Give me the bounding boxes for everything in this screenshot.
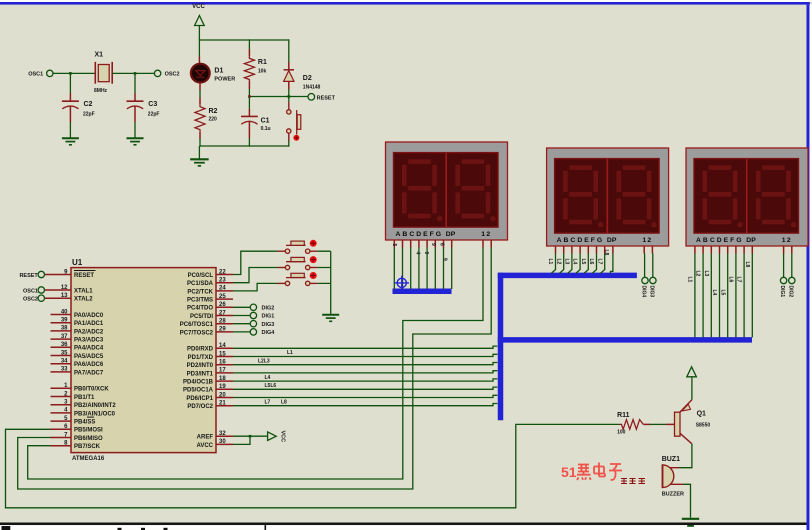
svg-text:RESET: RESET: [317, 95, 336, 101]
wire PD3 to bus: [233, 371, 497, 373]
pin 35 PA5/ADC5 stub: [51, 355, 72, 357]
diode D2: [284, 69, 294, 71]
pin 26 PC4/TDO stub: [216, 306, 233, 308]
svg-text:L4: L4: [572, 259, 578, 265]
pin 36 PA4/ADC4 stub: [51, 346, 72, 348]
capacitor C1: [241, 115, 258, 117]
terminal DIG3: [250, 321, 256, 327]
svg-text:25: 25: [219, 294, 226, 300]
wire ground stem: [198, 146, 200, 159]
svg-text:AVCC: AVCC: [196, 443, 213, 449]
svg-text:PD4/OC1B: PD4/OC1B: [183, 380, 214, 386]
svg-text:23: 23: [219, 278, 226, 284]
svg-text:22pF: 22pF: [83, 111, 95, 117]
terminal DIG2: [250, 304, 256, 310]
svg-text:32: 32: [219, 431, 226, 437]
power VCC arrow: [195, 16, 205, 26]
svg-text:0.1u: 0.1u: [261, 126, 271, 132]
svg-text:L2: L2: [695, 271, 701, 277]
wire VCC stem: [198, 26, 200, 41]
svg-text:DIG3: DIG3: [649, 286, 655, 298]
pin 40 PA0/ADC0 stub: [51, 314, 72, 316]
svg-text:L6: L6: [728, 277, 734, 283]
schematic bottom border (black): [0, 523, 807, 526]
svg-text:L8: L8: [744, 262, 750, 268]
wire bottom rail: [199, 145, 288, 147]
svg-text:L1: L1: [547, 259, 553, 265]
wire R1 branch top: [248, 39, 250, 49]
svg-text:PB3/AIN1/OC0: PB3/AIN1/OC0: [74, 411, 116, 417]
pin 16 PD2/INT0 stub: [216, 364, 233, 366]
wire DISP2 pin G: [604, 246, 606, 254]
button terminals: [285, 281, 289, 285]
LED D1: [191, 64, 210, 83]
svg-text:22: 22: [219, 269, 226, 275]
wire DISP3 pin B: [702, 246, 704, 254]
terminal DIG3 (display2): [650, 277, 656, 283]
wire top rail: [199, 39, 288, 41]
svg-text:R2: R2: [209, 108, 218, 115]
pin 4 PB3/AIN1/OC0 stub: [51, 412, 72, 414]
pin 2 PB1/T1 stub: [51, 396, 72, 398]
svg-text:29: 29: [219, 327, 226, 333]
svg-text:L6: L6: [588, 259, 594, 265]
svg-text:12: 12: [61, 285, 68, 291]
svg-text:L2: L2: [555, 259, 561, 265]
power VCC arrow (Q1): [687, 367, 697, 377]
svg-text:RESET: RESET: [74, 273, 94, 279]
svg-text:PB7/SCK: PB7/SCK: [74, 444, 101, 450]
svg-text:PC6/TOSC1: PC6/TOSC1: [180, 322, 214, 328]
svg-text:36: 36: [61, 342, 68, 348]
wire DISP2 pin C: [571, 246, 573, 254]
7-segment display DISP3: [686, 148, 808, 246]
wire LED branch top: [198, 39, 200, 56]
pin 24 PC2/TCK stub: [216, 290, 233, 292]
svg-text:VCC: VCC: [192, 4, 205, 10]
svg-text:4: 4: [415, 252, 421, 255]
svg-text:9: 9: [441, 258, 447, 261]
button actuator (red): [310, 256, 317, 263]
svg-text:C3: C3: [148, 101, 157, 108]
wire buzzer-ground: [671, 483, 684, 485]
pin 38 PA2/ADC2 stub: [51, 330, 72, 332]
svg-text:39: 39: [61, 318, 68, 324]
terminal DIG1: [250, 312, 256, 318]
svg-text:PD2/INT0: PD2/INT0: [187, 363, 214, 369]
terminal DIG1 (display3): [780, 277, 786, 283]
crystal X1: [94, 62, 96, 84]
wire PC1-button2: [233, 268, 278, 283]
svg-text:L3: L3: [703, 271, 709, 277]
node marker (bus origin): [395, 276, 409, 290]
svg-text:L7: L7: [265, 399, 271, 405]
button actuator (red): [310, 240, 317, 247]
wire Q1-buzzer: [680, 444, 692, 468]
terminal OSC2 (chip): [38, 295, 44, 301]
svg-text:L5: L5: [719, 290, 725, 296]
bus bar (display1): [393, 289, 452, 295]
svg-text:DIG1: DIG1: [779, 286, 785, 298]
svg-text:16: 16: [219, 360, 226, 366]
pin 27 PC5/TDI stub: [216, 315, 233, 317]
wire C2 branch: [69, 73, 71, 93]
wire button lever: [286, 277, 306, 279]
svg-text:1N4148: 1N4148: [303, 85, 321, 91]
wire R2-bottom rail: [199, 132, 201, 139]
svg-text:24: 24: [219, 286, 226, 292]
resistor R2: [195, 105, 205, 132]
wire DISP3 pin G: [743, 246, 745, 254]
svg-text:OSC1: OSC1: [28, 72, 43, 78]
wire DISP3 pin DP: [751, 246, 753, 254]
svg-text:20: 20: [219, 392, 226, 398]
pin 37 PA3/ADC3 stub: [51, 338, 72, 340]
svg-text:35: 35: [61, 350, 68, 356]
svg-text:17: 17: [219, 368, 226, 374]
terminal DIG4: [250, 329, 256, 335]
wire DISP2 pin B: [563, 246, 565, 254]
pin 13 XTAL2 stub: [45, 297, 72, 299]
wire PC-DIG4: [233, 331, 250, 333]
svg-text:100: 100: [617, 429, 626, 435]
svg-text:PB5/MOSI: PB5/MOSI: [74, 428, 103, 434]
svg-text:S8550: S8550: [696, 422, 711, 428]
bus horizontal (display3): [498, 337, 752, 343]
bus horizontal (display2): [498, 273, 637, 279]
junction D2/node2: [288, 95, 291, 98]
svg-text:DIG4: DIG4: [262, 330, 276, 336]
pin 29 PC7/TOSC2 stub: [216, 331, 233, 333]
svg-text:C2: C2: [84, 101, 93, 108]
svg-text:PA2/ADC2: PA2/ADC2: [74, 329, 104, 335]
svg-text:Q1: Q1: [697, 411, 706, 418]
svg-text:OSC2: OSC2: [23, 297, 38, 303]
svg-text:13: 13: [61, 293, 68, 299]
pin 22 PC0/SCL stub: [216, 274, 233, 276]
sheet border top (blue): [0, 2, 810, 5]
svg-text:PC5/TDI: PC5/TDI: [190, 314, 213, 320]
wire buttons common: [317, 251, 331, 315]
wire D2 branch top: [288, 39, 290, 62]
svg-text:PA1/ADC1: PA1/ADC1: [74, 321, 104, 327]
svg-text:PD7/OC2: PD7/OC2: [187, 404, 213, 410]
pin 5 PB4/SS stub: [51, 420, 72, 422]
svg-text:PB2/AIN0/INT2: PB2/AIN0/INT2: [74, 403, 116, 409]
svg-text:14: 14: [219, 343, 226, 349]
wire PD0 to bus: [233, 346, 497, 348]
terminal OSC1 (crystal): [47, 70, 53, 76]
pin 14 PD0/RXD stub: [216, 347, 233, 349]
wire DISP1 pin A: [393, 240, 395, 248]
svg-text:34: 34: [61, 359, 68, 365]
wire DISP2 pin2-DIG3: [651, 246, 653, 254]
power VCC arrow (AREF): [268, 432, 277, 441]
svg-text:L2L3: L2L3: [258, 358, 270, 364]
svg-text:19: 19: [219, 384, 226, 390]
wire X1-OSC2: [112, 72, 154, 74]
svg-text:D1: D1: [214, 68, 223, 75]
pin 20 PD6/ICP1 stub: [216, 397, 233, 399]
pin 6 PB5/MOSI stub: [51, 428, 72, 430]
svg-text:POWER: POWER: [214, 77, 235, 83]
wire PB6 to display1 pin2: [18, 248, 492, 490]
wire DISP1 pin2 stub: [490, 240, 492, 248]
wire PD1 to bus: [233, 354, 497, 356]
terminal RESET (chip): [38, 271, 44, 277]
wire DISP2 pin A: [555, 246, 557, 254]
svg-text:PB4/SS: PB4/SS: [74, 420, 95, 426]
wire DISP3 pin1-DIG1: [783, 246, 785, 254]
svg-text:PD0/RXD: PD0/RXD: [187, 347, 214, 353]
pin 33 PA7/ADC7 stub: [51, 371, 72, 373]
svg-text:15: 15: [219, 351, 226, 357]
svg-text:XTAL1: XTAL1: [74, 288, 93, 294]
wire reset button top: [288, 97, 290, 102]
svg-text:220: 220: [209, 117, 218, 123]
ground (C2): [62, 137, 79, 139]
wire DISP1 pin D: [418, 240, 420, 248]
svg-text:18: 18: [219, 376, 226, 382]
svg-text:PB6/MISO: PB6/MISO: [74, 436, 103, 442]
svg-text:DIG2: DIG2: [787, 286, 793, 298]
wire DISP2 pin1-DIG4: [643, 246, 645, 254]
svg-text:DIG2: DIG2: [262, 306, 275, 312]
wire DISP1 pin DP: [451, 240, 453, 248]
terminal OSC2 (crystal): [154, 70, 160, 76]
wire DISP3 pin C: [710, 246, 712, 254]
pin 18 PD4/OC1B stub: [216, 380, 233, 382]
wire PB5 to R11 (via bottom): [6, 424, 620, 507]
svg-text:37: 37: [61, 334, 68, 340]
ground (buttons): [322, 314, 339, 316]
svg-text:PC7/TOSC2: PC7/TOSC2: [180, 330, 214, 336]
button actuator (red): [310, 272, 317, 279]
svg-text:PD5/OC1A: PD5/OC1A: [183, 388, 214, 394]
svg-text:PC0/SCL: PC0/SCL: [188, 273, 214, 279]
wire PD6 to bus: [233, 395, 497, 397]
svg-text:AREF: AREF: [197, 435, 214, 441]
svg-text:ATMEGA16: ATMEGA16: [72, 456, 105, 462]
svg-text:PA5/ADC5: PA5/ADC5: [74, 354, 104, 360]
svg-text:U1: U1: [72, 258, 83, 267]
svg-text:38: 38: [61, 326, 68, 332]
wire R11-Q1 base: [643, 423, 650, 425]
svg-text:PC2/TCK: PC2/TCK: [187, 289, 213, 295]
wire PC2-button3: [233, 283, 278, 291]
svg-text:PA4/ADC4: PA4/ADC4: [74, 346, 104, 352]
capacitor C2: [62, 100, 79, 102]
wire PD5 to bus: [233, 387, 497, 389]
bus vertical (main): [498, 273, 504, 421]
svg-text:L4: L4: [711, 290, 717, 296]
wire C3 branch: [134, 73, 136, 93]
svg-text:PD3/INT1: PD3/INT1: [187, 371, 214, 377]
svg-text:XTAL2: XTAL2: [74, 297, 93, 303]
7-segment display DISP1: [386, 142, 508, 240]
watermark small red text: [621, 478, 645, 484]
pin 39 PA1/ADC1 stub: [51, 322, 72, 324]
pin 28 PC6/TOSC1 stub: [216, 323, 233, 325]
svg-text:L4: L4: [265, 375, 271, 381]
watermark 51hei text: [561, 463, 622, 481]
svg-text:L1: L1: [687, 277, 693, 283]
wire button lever: [286, 261, 306, 263]
wire DISP2 pin D: [579, 246, 581, 254]
wire DISP1 pin C: [410, 240, 412, 248]
pin 34 PA6/ADC6 stub: [51, 363, 72, 365]
svg-text:L1: L1: [287, 350, 293, 356]
svg-text:L7: L7: [596, 259, 602, 265]
svg-text:5: 5: [391, 244, 397, 247]
svg-text:30: 30: [219, 439, 226, 445]
svg-text:X1: X1: [95, 52, 104, 59]
wire DISP2 pin F: [596, 246, 598, 254]
svg-text:PB1/T1: PB1/T1: [74, 395, 95, 401]
resistor R11: [620, 420, 644, 430]
svg-text:BUZ1: BUZ1: [662, 456, 680, 463]
status strip marks: [2, 526, 11, 530]
wire DISP2 pin E: [587, 246, 589, 254]
sheet border right (blue): [807, 5, 810, 530]
wire DISP3 pin E: [727, 246, 729, 254]
wire DISP1 pin B: [402, 240, 404, 248]
ground (buzzer) top bar: [682, 518, 699, 520]
junction AREF: [249, 435, 252, 438]
svg-text:DIG3: DIG3: [262, 322, 275, 328]
Q1 collector: [680, 433, 692, 444]
svg-text:PC1/SDA: PC1/SDA: [187, 281, 214, 287]
svg-text:BUZZER: BUZZER: [662, 491, 684, 497]
wire PC-DIG2: [233, 306, 250, 308]
wire DISP1 pin1 stub: [482, 240, 484, 248]
svg-text:PA0/ADC0: PA0/ADC0: [74, 313, 104, 319]
pin 3 PB2/AIN0/INT2 stub: [51, 404, 72, 406]
pin 25 PC3/TMS stub: [216, 298, 233, 300]
wire PC0-button1: [233, 251, 278, 274]
svg-text:33: 33: [61, 367, 68, 373]
svg-text:L3: L3: [564, 259, 570, 265]
pin 32 AREF stub: [216, 435, 233, 437]
wire button lever: [286, 244, 306, 246]
wire DISP2 pin DP: [612, 246, 614, 254]
terminal RESET (top): [308, 94, 315, 101]
terminal DIG4 (display2): [642, 277, 648, 283]
wire PD7 to bus: [233, 404, 497, 406]
wire PB7 to display1 pin1: [28, 248, 483, 480]
svg-text:PD1/TXD: PD1/TXD: [188, 355, 214, 361]
svg-text:0: 0: [423, 252, 429, 255]
svg-text:40: 40: [61, 309, 68, 315]
svg-text:D2: D2: [303, 75, 312, 82]
svg-text:R11: R11: [617, 412, 630, 419]
svg-text:R1: R1: [258, 59, 267, 66]
wire PC-DIG3: [233, 323, 250, 325]
wire LED-R2: [199, 82, 201, 90]
Q1 emitter: [680, 400, 692, 412]
overline SS pin label: [87, 416, 94, 418]
wire DISP1 pin G: [443, 240, 445, 248]
resistor R1: [244, 56, 254, 81]
junction node2: [248, 95, 251, 98]
svg-text:L5L6: L5L6: [265, 383, 277, 389]
pin 19 PD5/OC1A stub: [216, 388, 233, 390]
transistor Q1 (S8550): [675, 412, 681, 436]
svg-text:22pF: 22pF: [148, 111, 160, 117]
pin 1 PB0/T0/XCK stub: [51, 387, 72, 389]
svg-text:21: 21: [219, 401, 226, 407]
svg-text:OSC2: OSC2: [165, 72, 180, 78]
svg-text:6: 6: [438, 243, 444, 246]
op-amp U1 body (ATMEGA16): [71, 268, 216, 453]
svg-text:L8: L8: [603, 250, 609, 256]
svg-text:51: 51: [561, 464, 577, 480]
svg-text:RESET: RESET: [19, 273, 38, 279]
pin 12 XTAL1 stub: [45, 289, 72, 291]
wire DISP1 pin F: [434, 240, 436, 248]
capacitor C3: [127, 100, 144, 102]
wire DISP3 pin2-DIG2: [791, 246, 793, 254]
wire PD2 to bus: [233, 363, 497, 365]
svg-text:8MHz: 8MHz: [94, 88, 108, 94]
svg-text:PC3/TMS: PC3/TMS: [187, 298, 213, 304]
wire DISP3 pin D: [719, 246, 721, 254]
wire R1-node2: [248, 82, 250, 90]
overline RESET pin label: [74, 270, 96, 272]
wire reset button bottom: [288, 133, 290, 141]
svg-text:DIG4: DIG4: [641, 286, 647, 298]
svg-text:VCC: VCC: [280, 431, 286, 443]
svg-text:PC4/TDO: PC4/TDO: [187, 306, 213, 312]
terminal DIG2 (display3): [789, 277, 795, 283]
wire Q1 emitter-VCC: [691, 377, 693, 400]
wire PD4 to bus: [233, 379, 497, 381]
pin 8 PB7/SCK stub: [51, 445, 72, 447]
junction OSC2/C3: [134, 72, 137, 75]
button terminals: [285, 249, 289, 253]
button terminals: [285, 265, 289, 269]
pushbutton (reset): [287, 110, 291, 114]
wire PC-DIG1: [233, 315, 250, 317]
ground (buzzer) lower bar: [687, 525, 694, 527]
svg-text:27: 27: [219, 310, 226, 316]
wire DISP1 pin E: [426, 240, 428, 248]
pin 7 PB6/MISO stub: [51, 437, 72, 439]
pin 9 RESET stub: [45, 274, 72, 276]
svg-text:9: 9: [430, 243, 436, 246]
wire DISP3 pin F: [735, 246, 737, 254]
svg-text:PA6/ADC6: PA6/ADC6: [74, 362, 104, 368]
wire OSC1-X1: [53, 72, 95, 74]
reset button actuator (red): [293, 135, 299, 141]
svg-text:L7: L7: [736, 277, 742, 283]
ground (C3): [127, 137, 144, 139]
junction OSC1/C2: [69, 72, 72, 75]
ground (main): [190, 158, 209, 160]
wire D2-node2: [288, 81, 290, 89]
terminal OSC1 (chip): [38, 287, 44, 293]
buzzer BUZ1: [663, 465, 674, 488]
svg-text:DIG1: DIG1: [262, 314, 275, 320]
svg-text:L8: L8: [281, 399, 287, 405]
svg-text:10k: 10k: [258, 69, 267, 75]
svg-text:PA3/ADC3: PA3/ADC3: [74, 338, 104, 344]
wire C1 branch: [248, 97, 250, 109]
svg-text:PA7/ADC7: PA7/ADC7: [74, 370, 104, 376]
svg-text:PB0/T0/XCK: PB0/T0/XCK: [74, 387, 109, 393]
wire DISP3 pin A: [694, 246, 696, 254]
svg-text:26: 26: [219, 302, 226, 308]
